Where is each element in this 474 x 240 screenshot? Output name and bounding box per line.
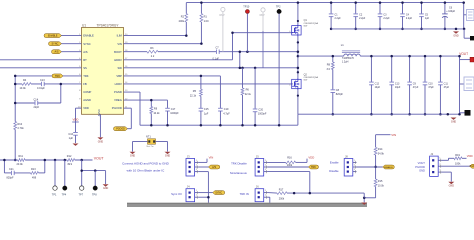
svg-text:SYNC: SYNC — [52, 43, 59, 46]
svg-text:DNP: DNP — [260, 14, 265, 17]
svg-text:200k: 200k — [279, 198, 285, 201]
svg-text:R11: R11 — [19, 155, 24, 158]
svg-text:R16: R16 — [287, 157, 292, 160]
svg-text:Disable: Disable — [329, 169, 339, 173]
svg-text:47µF: 47µF — [428, 86, 434, 89]
svg-text:CSD16857Q5A: CSD16857Q5A — [304, 76, 319, 79]
svg-text:SYNC: SYNC — [83, 42, 91, 46]
svg-text:R14: R14 — [378, 148, 383, 151]
svg-text:+ 100µF: + 100µF — [446, 10, 455, 13]
svg-text:Sync I/O: Sync I/O — [171, 192, 183, 196]
svg-text:10.2k: 10.2k — [153, 112, 160, 115]
svg-text:10.0k: 10.0k — [20, 87, 27, 90]
svg-text:LDRV: LDRV — [115, 82, 122, 86]
svg-text:2.2µF: 2.2µF — [383, 17, 390, 20]
svg-text:R17: R17 — [279, 188, 284, 191]
svg-text:GND: GND — [419, 168, 425, 172]
svg-text:TRK: TRK — [55, 75, 60, 78]
svg-text:R12: R12 — [67, 155, 72, 158]
svg-text:VOUT: VOUT — [418, 161, 426, 165]
svg-text:GND: GND — [98, 140, 104, 143]
svg-text:200k: 200k — [179, 20, 185, 23]
svg-text:VIN: VIN — [391, 133, 396, 137]
svg-text:10.0k: 10.0k — [378, 184, 385, 187]
svg-text:FB: FB — [83, 82, 87, 86]
svg-text:VBP: VBP — [116, 74, 122, 78]
svg-text:SS: SS — [83, 66, 87, 70]
svg-text:TP4: TP4 — [62, 194, 67, 197]
svg-text:PGOOD: PGOOD — [116, 129, 125, 131]
svg-text:ENABLE: ENABLE — [83, 34, 94, 38]
svg-text:C14: C14 — [34, 98, 39, 101]
svg-text:C11: C11 — [444, 82, 449, 85]
svg-text:COMP: COMP — [83, 90, 91, 94]
svg-text:GND: GND — [103, 187, 109, 190]
svg-text:TRK Disable: TRK Disable — [231, 161, 247, 165]
svg-text:0.1µF: 0.1µF — [213, 58, 220, 61]
svg-text:U1: U1 — [82, 24, 86, 28]
svg-text:54.9k: 54.9k — [378, 153, 385, 156]
svg-text:10µF: 10µF — [395, 86, 401, 89]
svg-text:20.0k: 20.0k — [17, 163, 24, 166]
svg-text:ILIM: ILIM — [117, 34, 123, 38]
svg-text:AGND: AGND — [83, 98, 91, 102]
svg-text:R19: R19 — [455, 154, 460, 157]
svg-text:2.74k: 2.74k — [18, 127, 25, 130]
svg-text:VDD: VDD — [73, 118, 79, 122]
svg-text:TRK IN: TRK IN — [240, 192, 249, 196]
svg-text:1µF: 1µF — [204, 112, 209, 115]
svg-text:1.00: 1.00 — [204, 20, 209, 23]
svg-text:100k: 100k — [455, 163, 461, 166]
svg-text:VOUT: VOUT — [94, 157, 105, 161]
svg-text:1000pF: 1000pF — [258, 113, 267, 116]
svg-text:ENABLE: ENABLE — [48, 35, 58, 38]
svg-text:820pF: 820pF — [336, 93, 344, 96]
svg-text:PGOOD: PGOOD — [470, 166, 474, 168]
svg-text:47µF: 47µF — [413, 86, 419, 89]
svg-text:1.2µH: 1.2µH — [342, 60, 349, 63]
svg-text:R10: R10 — [18, 123, 23, 126]
svg-text:C15: C15 — [204, 108, 209, 111]
svg-text:VIN: VIN — [209, 156, 214, 160]
svg-text:4.7µF: 4.7µF — [223, 112, 230, 115]
svg-text:2.2µF: 2.2µF — [335, 17, 342, 20]
svg-text:SW: SW — [117, 66, 122, 70]
svg-text:1000pF: 1000pF — [170, 112, 179, 115]
svg-text:3.0: 3.0 — [327, 68, 331, 71]
svg-text:with 10 Ohm Blade under IC: with 10 Ohm Blade under IC — [127, 169, 166, 173]
svg-text:TP10: TP10 — [243, 6, 250, 9]
svg-text:22.1k: 22.1k — [245, 93, 252, 96]
svg-text:GND: GND — [453, 34, 459, 37]
svg-text:820pF: 820pF — [7, 177, 15, 180]
svg-text:49.9: 49.9 — [67, 163, 72, 166]
svg-text:499: 499 — [32, 177, 37, 180]
svg-text:TP1: TP1 — [52, 194, 57, 197]
svg-text:C20: C20 — [258, 108, 263, 111]
svg-text:C13: C13 — [40, 79, 45, 82]
svg-text:GND: GND — [130, 155, 136, 158]
svg-text:C12: C12 — [375, 82, 380, 85]
svg-text:GND: GND — [451, 120, 457, 123]
svg-text:2.2: 2.2 — [151, 55, 155, 58]
svg-text:PGOOD: PGOOD — [112, 106, 122, 110]
svg-text:BOOT: BOOT — [114, 50, 122, 54]
svg-text:22pF: 22pF — [34, 106, 40, 109]
svg-text:1µF: 1µF — [69, 137, 74, 140]
svg-text:C16: C16 — [68, 133, 73, 136]
svg-text:C10: C10 — [428, 82, 433, 85]
svg-text:CSD16857Q5A: CSD16857Q5A — [304, 22, 319, 25]
svg-text:22.1k: 22.1k — [190, 94, 197, 97]
svg-text:Net-Tie: Net-Tie — [147, 145, 155, 148]
svg-text:0.01µF: 0.01µF — [37, 87, 45, 90]
svg-text:C17: C17 — [171, 108, 176, 111]
svg-text:NT1: NT1 — [146, 135, 151, 138]
svg-text:2.2µF: 2.2µF — [406, 17, 413, 20]
svg-text:R13: R13 — [31, 168, 36, 171]
svg-text:R15: R15 — [378, 180, 383, 183]
svg-text:Connect AGND and PGND to GND: Connect AGND and PGND to GND — [122, 161, 170, 165]
svg-text:47µF: 47µF — [444, 86, 450, 89]
svg-text:SYNC: SYNC — [215, 192, 222, 195]
svg-text:RT: RT — [83, 58, 87, 62]
svg-text:C19: C19 — [224, 108, 229, 111]
svg-text:60V: 60V — [304, 80, 308, 82]
svg-text:TRK: TRK — [83, 74, 89, 78]
svg-text:VIN: VIN — [117, 42, 122, 46]
svg-text:A/S: A/S — [54, 51, 58, 54]
svg-text:DNP: DNP — [220, 14, 225, 17]
svg-text:A/S: A/S — [212, 166, 216, 169]
svg-text:TPS40170RGY: TPS40170RGY — [97, 24, 120, 28]
svg-text:A/S: A/S — [83, 50, 88, 54]
svg-text:60V: 60V — [304, 25, 308, 27]
svg-text:VDD: VDD — [467, 154, 473, 158]
svg-text:VREG: VREG — [114, 98, 122, 102]
svg-text:2.2µF: 2.2µF — [359, 17, 366, 20]
svg-text:Enable: Enable — [330, 161, 339, 165]
svg-text:10µF: 10µF — [375, 86, 381, 89]
svg-text:C21: C21 — [9, 168, 14, 171]
svg-text:TP2: TP2 — [276, 6, 281, 9]
svg-text:VDD: VDD — [83, 106, 89, 110]
svg-text:TP7: TP7 — [79, 194, 84, 197]
svg-text:ENABLE: ENABLE — [384, 166, 393, 169]
svg-text:VDD: VDD — [308, 156, 314, 160]
svg-text:HDRV: HDRV — [114, 58, 122, 62]
svg-text:TRK: TRK — [311, 166, 316, 169]
svg-text:TP8: TP8 — [92, 194, 97, 197]
svg-text:GND: GND — [165, 155, 171, 158]
svg-text:PGND: PGND — [114, 90, 122, 94]
svg-text:PGOOD: PGOOD — [415, 165, 425, 169]
svg-text:C13: C13 — [395, 82, 400, 85]
svg-text:GND: GND — [449, 185, 455, 188]
svg-text:1µF: 1µF — [425, 17, 430, 20]
svg-text:Simultaneous: Simultaneous — [230, 171, 248, 175]
